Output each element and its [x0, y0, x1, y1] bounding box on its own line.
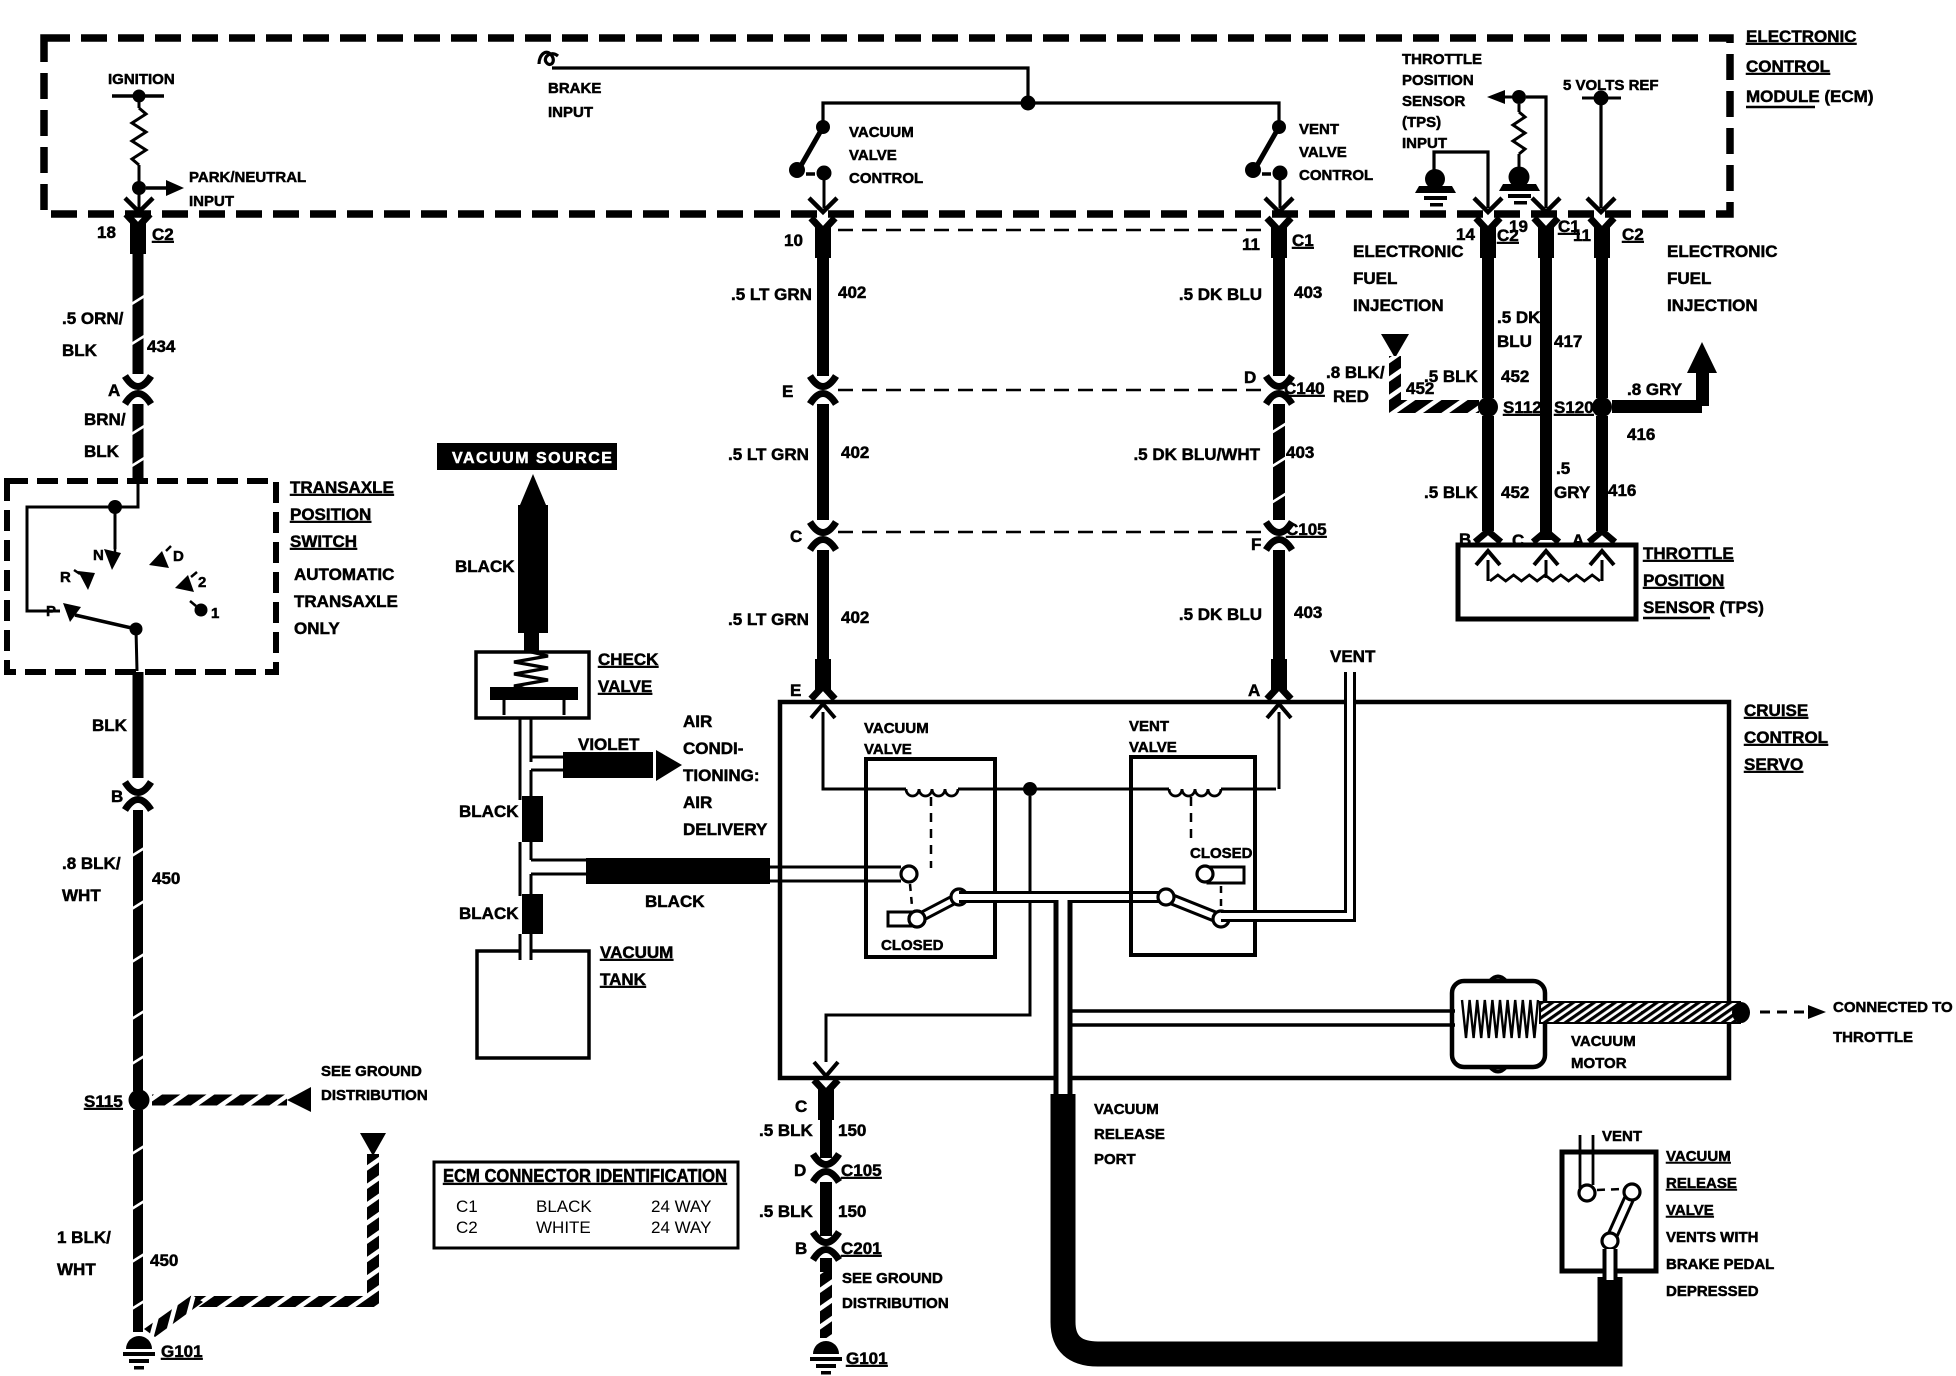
- off-page arrow ground distribution: [287, 1087, 311, 1112]
- label C140: [1284, 379, 1325, 398]
- label VACUUM TANK: [600, 943, 673, 989]
- svg-text:CLOSED: CLOSED: [881, 937, 944, 954]
- 5 volts ref feed: [1582, 91, 1621, 209]
- svg-text:BLU: BLU: [1497, 332, 1532, 351]
- label BLACK (long hose): [645, 892, 705, 911]
- svg-text:SEE GROUND: SEE GROUND: [842, 1270, 943, 1287]
- label 450 lower: [150, 1251, 178, 1270]
- label THROTTLE POSITION SENSOR (TPS) INPUT: [1402, 51, 1482, 152]
- vacuum valve lever: [909, 889, 967, 927]
- svg-text:VACUUM SOURCE: VACUUM SOURCE: [452, 450, 613, 467]
- vacuum release channel: [1054, 898, 1073, 1098]
- check valve piston: [490, 687, 578, 715]
- svg-text:416: 416: [1608, 481, 1636, 500]
- label .8 BLK/ RED: [1326, 363, 1385, 406]
- svg-text:WHT: WHT: [57, 1260, 96, 1279]
- wire striped ground branch horizontal: [190, 1296, 379, 1307]
- pin 18 stub: [126, 214, 150, 254]
- svg-text:VENT: VENT: [1129, 718, 1169, 735]
- label 150 seg2: [838, 1202, 866, 1221]
- wire 150 BLK seg2: [820, 1182, 832, 1236]
- svg-text:ELECTRONIC: ELECTRONIC: [1667, 242, 1778, 261]
- svg-text:403: 403: [1286, 443, 1314, 462]
- connector E (C140 row): [810, 376, 836, 404]
- svg-text:G101: G101: [846, 1349, 888, 1368]
- svg-text:BRN/: BRN/: [84, 410, 126, 429]
- vacuum source arrow up: [520, 474, 546, 505]
- svg-text:402: 402: [841, 443, 869, 462]
- label 452 seg2: [1501, 483, 1529, 502]
- svg-text:R: R: [60, 569, 71, 586]
- svg-text:AIR: AIR: [683, 793, 712, 812]
- svg-text:DEPRESSED: DEPRESSED: [1666, 1283, 1759, 1300]
- connector label C1: [1292, 231, 1314, 250]
- splice S120: [1592, 397, 1612, 417]
- svg-text:416: 416: [1627, 425, 1655, 444]
- wire 434 ORN/BLK: [130, 250, 146, 374]
- pin 18 arrow at ECM edge: [125, 193, 153, 212]
- svg-text:VACUUM: VACUUM: [1571, 1033, 1636, 1050]
- svg-text:WHITE: WHITE: [536, 1218, 591, 1237]
- svg-text:VALVE: VALVE: [1666, 1202, 1714, 1219]
- contact P: [46, 603, 81, 622]
- label S112: [1503, 398, 1542, 417]
- label 452 seg1: [1501, 367, 1529, 386]
- violet hose segment: [563, 752, 653, 778]
- label VENT VALVE: [1129, 718, 1177, 756]
- svg-text:.8 BLK/: .8 BLK/: [62, 854, 121, 873]
- label .5 DK BLU/WHT: [1133, 445, 1260, 464]
- svg-text:P: P: [46, 603, 56, 620]
- svg-text:5 VOLTS REF: 5 VOLTS REF: [1563, 77, 1659, 94]
- label CHECK VALVE: [598, 650, 659, 696]
- label .5 DK BLU seg3: [1179, 605, 1262, 624]
- label BRN/ BLK: [84, 410, 126, 461]
- label D (bottom): [794, 1161, 806, 1180]
- dashed link C-F: [838, 531, 1262, 534]
- svg-text:ECM CONNECTOR IDENTIFICATION: ECM CONNECTOR IDENTIFICATION: [443, 1166, 727, 1186]
- label 402 seg2: [841, 608, 869, 627]
- pin 19 stub: [1534, 218, 1558, 258]
- svg-text:150: 150: [838, 1121, 866, 1140]
- servo pin C arrow: [814, 1062, 838, 1076]
- svg-text:F: F: [1251, 535, 1261, 554]
- vent valve control switch: [1245, 120, 1288, 208]
- svg-text:11: 11: [1242, 235, 1260, 254]
- connector label C1 (pin19): [1558, 217, 1580, 236]
- wire to ground distribution (striped): [152, 1095, 287, 1106]
- svg-text:CONNECTED TO: CONNECTED TO: [1833, 999, 1953, 1016]
- ground G101 left: [123, 1336, 155, 1370]
- label G101 left: [161, 1342, 203, 1361]
- svg-text:CLOSED: CLOSED: [1190, 845, 1253, 862]
- servo pin E arrow: [811, 704, 835, 718]
- label A: [108, 381, 120, 400]
- svg-text:SERVO: SERVO: [1744, 755, 1803, 774]
- wire 450 BLK/WHT upper: [130, 810, 146, 1091]
- svg-text:.5 BLK: .5 BLK: [1424, 483, 1479, 502]
- svg-text:RELEASE: RELEASE: [1094, 1126, 1165, 1143]
- label C201: [841, 1239, 882, 1258]
- svg-text:IGNITION: IGNITION: [108, 71, 175, 88]
- wire 417 DK BLU: [1540, 255, 1552, 540]
- svg-text:C: C: [795, 1097, 807, 1116]
- hose black section 1: [522, 796, 543, 842]
- label 403 seg3: [1294, 603, 1322, 622]
- label PARK/NEUTRAL INPUT: [189, 169, 306, 210]
- svg-text:THROTTLE: THROTTLE: [1833, 1029, 1913, 1046]
- node coil junction: [1023, 782, 1037, 796]
- label pin 18: [97, 223, 116, 242]
- pin 11 stub (C2): [1590, 218, 1614, 258]
- svg-text:CONTROL: CONTROL: [1746, 57, 1830, 76]
- label .5 GRY: [1554, 459, 1591, 502]
- wire brake bus: [823, 103, 1279, 125]
- node switch feed junction: [108, 500, 122, 514]
- svg-text:.5 BLK: .5 BLK: [759, 1121, 814, 1140]
- svg-text:.5 LT GRN: .5 LT GRN: [728, 610, 809, 629]
- svg-text:POSITION: POSITION: [290, 505, 371, 524]
- label C (below servo): [795, 1097, 807, 1116]
- connector label C2 (5v): [1622, 225, 1644, 244]
- wire 403 seg1: [1273, 255, 1285, 376]
- label 403 seg2: [1286, 443, 1314, 462]
- label .5 BLK seg2: [1424, 483, 1479, 502]
- wire BRN/BLK: [130, 404, 146, 482]
- wire striped ground branch diagonal: [144, 1295, 203, 1337]
- chassis ball ground left (pin14 branch): [1415, 169, 1456, 207]
- svg-text:VALVE: VALVE: [849, 147, 897, 164]
- svg-text:WHT: WHT: [62, 886, 101, 905]
- release valve stem: [1603, 1249, 1618, 1280]
- svg-text:GRY: GRY: [1554, 483, 1591, 502]
- svg-text:ELECTRONIC: ELECTRONIC: [1353, 242, 1464, 261]
- svg-text:.5 DK BLU: .5 DK BLU: [1179, 605, 1262, 624]
- pin B flare: [1475, 531, 1501, 542]
- label .5 BLK (150 seg1): [759, 1121, 814, 1140]
- svg-text:10: 10: [784, 231, 803, 250]
- svg-text:VACUUM: VACUUM: [849, 124, 914, 141]
- svg-text:G101: G101: [161, 1342, 203, 1361]
- label pin 14: [1456, 225, 1475, 244]
- vacuum motor spring: [1462, 1000, 1538, 1038]
- servo pin C stub: [814, 1080, 838, 1120]
- ECM module dashed box: [44, 38, 1730, 214]
- label 402 seg mid: [841, 443, 869, 462]
- label SEE GROUND DISTRIBUTION: [321, 1063, 428, 1104]
- svg-text:THROTTLE: THROTTLE: [1402, 51, 1482, 68]
- contact 1: [190, 601, 219, 622]
- svg-text:SEE GROUND: SEE GROUND: [321, 1063, 422, 1080]
- label 450: [152, 869, 180, 888]
- label TRANSAXLE POSITION SWITCH: [290, 478, 394, 551]
- pin 11 stub: [1267, 218, 1291, 258]
- node park/neutral junction: [132, 181, 146, 195]
- svg-text:CONTROL: CONTROL: [1299, 167, 1373, 184]
- svg-text:A: A: [1248, 681, 1260, 700]
- svg-text:AIR: AIR: [683, 712, 712, 731]
- svg-text:BLACK: BLACK: [459, 904, 519, 923]
- svg-text:.5 DK: .5 DK: [1497, 308, 1541, 327]
- svg-text:C2: C2: [152, 225, 174, 244]
- chassis ball ground right (pullup): [1499, 167, 1540, 205]
- svg-text:VIOLET: VIOLET: [578, 735, 640, 754]
- svg-text:RED: RED: [1333, 387, 1369, 406]
- label C105: [1286, 520, 1327, 539]
- svg-text:RELEASE: RELEASE: [1666, 1175, 1737, 1192]
- svg-text:C201: C201: [841, 1239, 882, 1258]
- svg-text:ONLY: ONLY: [294, 619, 340, 638]
- label 416 seg2: [1608, 481, 1636, 500]
- off-page arrow .8 BLK/RED (down): [1381, 334, 1409, 358]
- svg-text:11: 11: [1573, 226, 1591, 245]
- label A: [1572, 531, 1584, 550]
- svg-text:BLACK: BLACK: [459, 802, 519, 821]
- svg-text:BLK: BLK: [92, 716, 128, 735]
- svg-text:POSITION: POSITION: [1643, 571, 1724, 590]
- wire striped to G101: [820, 1258, 832, 1338]
- label BLACK (lower): [459, 904, 519, 923]
- label BLK: [92, 716, 128, 735]
- label C105 (bottom): [841, 1161, 882, 1180]
- hose black long section to servo: [586, 858, 770, 884]
- dashed arrow connected to throttle: [1760, 1005, 1826, 1019]
- wire junction to vent coil: [1030, 788, 1169, 791]
- svg-text:MOTOR: MOTOR: [1571, 1055, 1627, 1072]
- svg-text:.5: .5: [1556, 459, 1570, 478]
- vacuum motor body: [1452, 977, 1545, 1072]
- pin E stub into servo: [811, 659, 835, 699]
- TPS leg C arrow: [1534, 551, 1558, 578]
- release valve vent port circle: [1579, 1185, 1595, 1201]
- svg-text:.8 BLK/: .8 BLK/: [1326, 363, 1385, 382]
- svg-text:S112: S112: [1503, 398, 1542, 417]
- check valve box: [476, 652, 589, 718]
- label VACUUM MOTOR: [1571, 1033, 1636, 1072]
- splice S115: [129, 1090, 150, 1111]
- label 5 VOLTS REF: [1563, 77, 1659, 94]
- vent valve plug: [1197, 866, 1244, 883]
- wire S120 to EFI (.8 GRY): [1612, 370, 1709, 413]
- label .5 DK BLU 417: [1497, 308, 1541, 351]
- label AIR CONDITIONING AIR DELIVERY: [683, 712, 768, 839]
- label .5 BLK (150 seg2): [759, 1202, 814, 1221]
- svg-text:INJECTION: INJECTION: [1353, 296, 1444, 315]
- wire vent coil to A leg: [1221, 788, 1276, 791]
- svg-text:.5 DK BLU: .5 DK BLU: [1179, 285, 1262, 304]
- svg-text:PORT: PORT: [1094, 1151, 1136, 1168]
- vacuum release port hose: [1063, 1094, 1610, 1354]
- svg-text:.8 GRY: .8 GRY: [1627, 380, 1683, 399]
- wire resistor to junction: [138, 165, 141, 188]
- svg-text:C140: C140: [1284, 379, 1325, 398]
- svg-text:DELIVERY: DELIVERY: [683, 820, 768, 839]
- transaxle position switch box: [7, 481, 276, 672]
- svg-text:CONTROL: CONTROL: [1744, 728, 1828, 747]
- wire 452 BLK seg2: [1482, 416, 1494, 531]
- svg-text:452: 452: [1501, 483, 1529, 502]
- svg-text:1 BLK/: 1 BLK/: [57, 1228, 111, 1247]
- label VACUUM VALVE CONTROL: [849, 124, 923, 187]
- wire striped ground branch vertical: [367, 1154, 379, 1302]
- svg-text:18: 18: [97, 223, 116, 242]
- label S115: [84, 1092, 123, 1111]
- svg-text:BLACK: BLACK: [455, 557, 515, 576]
- svg-text:VACUUM: VACUUM: [600, 943, 673, 962]
- svg-text:INJECTION: INJECTION: [1667, 296, 1758, 315]
- label E: [782, 382, 793, 401]
- svg-text:B: B: [795, 1239, 807, 1258]
- pin 10 stub: [811, 218, 835, 258]
- label SEE GROUND DISTRIBUTION (bottom): [842, 1270, 949, 1312]
- wire 150 BLK seg1: [820, 1118, 832, 1158]
- label BRAKE INPUT: [548, 80, 601, 121]
- label ELECTRONIC FUEL INJECTION right: [1667, 242, 1778, 315]
- svg-text:POSITION: POSITION: [1402, 72, 1474, 89]
- wire junction to pin 19: [1526, 97, 1546, 208]
- check valve spring: [514, 652, 548, 690]
- resistor TPS pullup: [1513, 104, 1525, 168]
- label THROTTLE POSITION SENSOR (TPS): [1643, 544, 1764, 618]
- vacuum inlet hose: [770, 867, 901, 881]
- connector C (C105 row): [810, 522, 836, 550]
- label D: [1244, 368, 1256, 387]
- svg-text:PARK/NEUTRAL: PARK/NEUTRAL: [189, 169, 306, 186]
- pin 10 arrow at ECM edge: [809, 198, 837, 212]
- svg-text:150: 150: [838, 1202, 866, 1221]
- svg-text:D: D: [173, 548, 184, 565]
- node brake bus junction: [1021, 96, 1036, 111]
- svg-text:TANK: TANK: [600, 970, 647, 989]
- svg-text:450: 450: [150, 1251, 178, 1270]
- label 150 seg1: [838, 1121, 866, 1140]
- svg-text:C2: C2: [456, 1218, 478, 1237]
- svg-text:C2: C2: [1622, 225, 1644, 244]
- pin C flare: [1533, 531, 1559, 542]
- ECM title label: [1746, 27, 1873, 107]
- label VACUUM VALVE: [864, 720, 929, 758]
- contact 2: [175, 572, 206, 592]
- label 402 seg1: [838, 283, 866, 302]
- ignition feed wire: [112, 90, 164, 109]
- vacuum valve control switch: [789, 120, 832, 208]
- label A servo: [1248, 681, 1260, 700]
- svg-text:402: 402: [841, 608, 869, 627]
- pin A stub into servo: [1267, 659, 1291, 699]
- connector B: [125, 782, 151, 810]
- svg-text:BLK: BLK: [62, 341, 98, 360]
- label VACUUM RELEASE VALVE VENTS WITH BRAKE PEDAL DEPRESSED: [1666, 1148, 1774, 1300]
- vent pipe to VENT opening: [1221, 672, 1350, 916]
- label IGNITION: [108, 71, 175, 88]
- hose black section 2: [522, 894, 543, 934]
- svg-text:TRANSAXLE: TRANSAXLE: [290, 478, 394, 497]
- svg-text:THROTTLE: THROTTLE: [1643, 544, 1734, 563]
- svg-text:VENT: VENT: [1330, 647, 1376, 666]
- svg-text:SENSOR (TPS): SENSOR (TPS): [1643, 598, 1764, 617]
- wire E leg to vacuum coil: [823, 712, 906, 789]
- svg-text:.5 LT GRN: .5 LT GRN: [731, 285, 812, 304]
- svg-text:D: D: [1244, 368, 1256, 387]
- label BLACK (source hose): [455, 557, 515, 576]
- vent valve armature dashed: [1191, 797, 1221, 908]
- label B (bottom): [795, 1239, 807, 1258]
- svg-text:ELECTRONIC: ELECTRONIC: [1746, 27, 1857, 46]
- wire 402 seg2: [817, 404, 829, 520]
- svg-text:INPUT: INPUT: [1402, 135, 1447, 152]
- connector label C2 (pin14): [1497, 226, 1519, 245]
- label G101 bottom: [846, 1349, 888, 1368]
- wire 403 seg3: [1273, 550, 1285, 688]
- svg-text:A: A: [108, 381, 120, 400]
- svg-text:BRAKE PEDAL: BRAKE PEDAL: [1666, 1256, 1774, 1273]
- ECM connector identification table: [434, 1162, 738, 1248]
- svg-text:VALVE: VALVE: [1299, 144, 1347, 161]
- vacuum valve plug: [888, 911, 925, 927]
- svg-text:.5 BLK: .5 BLK: [759, 1202, 814, 1221]
- vent valve lever: [1158, 889, 1229, 927]
- label ELECTRONIC FUEL INJECTION left: [1353, 242, 1464, 315]
- TPS sensor box: [1458, 545, 1636, 619]
- release valve lever: [1602, 1184, 1640, 1249]
- svg-text:VACUUM: VACUUM: [1666, 1148, 1731, 1165]
- svg-text:C105: C105: [841, 1161, 882, 1180]
- label .5 DK BLU seg1: [1179, 285, 1262, 304]
- svg-text:SWITCH: SWITCH: [290, 532, 357, 551]
- svg-text:D: D: [794, 1161, 806, 1180]
- hose to servo tee: [520, 842, 586, 896]
- switch arm: [75, 615, 143, 671]
- svg-text:VACUUM: VACUUM: [864, 720, 929, 737]
- svg-text:VENT: VENT: [1299, 121, 1339, 138]
- connector D C105 (bottom): [813, 1154, 839, 1182]
- svg-text:C105: C105: [1286, 520, 1327, 539]
- wire switch feed: [27, 482, 138, 611]
- label pin 11 (C2): [1573, 226, 1591, 245]
- svg-text:AUTOMATIC: AUTOMATIC: [294, 565, 394, 584]
- svg-text:E: E: [790, 681, 801, 700]
- label .5 LT GRN seg2: [728, 610, 809, 629]
- svg-text:VALVE: VALVE: [598, 677, 652, 696]
- hose into tank: [520, 934, 531, 960]
- resistor inside ECM: [132, 108, 146, 165]
- svg-text:C1: C1: [456, 1197, 478, 1216]
- svg-text:INPUT: INPUT: [189, 193, 234, 210]
- svg-text:DISTRIBUTION: DISTRIBUTION: [842, 1295, 949, 1312]
- arrow to TPS label: [1487, 90, 1513, 104]
- svg-text:402: 402: [838, 283, 866, 302]
- label VENT (servo): [1330, 647, 1376, 666]
- label S120: [1554, 398, 1594, 417]
- label CLOSED (vacuum valve): [881, 937, 944, 954]
- svg-text:SENSOR: SENSOR: [1402, 93, 1466, 110]
- svg-text:.5 ORN/: .5 ORN/: [62, 309, 124, 328]
- svg-text:24 WAY: 24 WAY: [651, 1218, 711, 1237]
- label .5 LT GRN seg mid: [728, 445, 809, 464]
- vacuum source label box: [437, 443, 617, 470]
- vacuum release valve box: [1562, 1152, 1656, 1271]
- svg-text:19: 19: [1509, 217, 1528, 236]
- pin C2-11 arrow at ECM edge: [1587, 198, 1615, 212]
- wire BLK: [133, 672, 144, 778]
- hose to vacuum motor: [1072, 1011, 1455, 1025]
- svg-text:S120: S120: [1554, 398, 1594, 417]
- vacuum valve box: [866, 759, 995, 957]
- label pin 19: [1509, 217, 1528, 236]
- vacuum valve armature dashed: [910, 797, 931, 906]
- wire brake input feed: [552, 68, 1028, 103]
- vent valve box: [1131, 757, 1255, 955]
